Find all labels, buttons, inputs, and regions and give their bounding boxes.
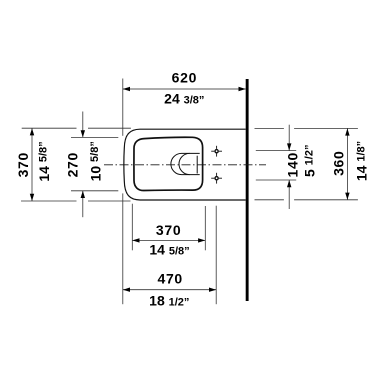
dim 370 bottom: extensions <box>132 204 205 251</box>
bottom ext line right <box>255 199 284 201</box>
dim 360 line <box>346 128 348 199</box>
dim 360 arrow bottom <box>345 193 349 200</box>
dim 470: extensions <box>123 193 216 304</box>
dim 270 arrow bottom <box>81 191 85 198</box>
dim 360 arrow top <box>345 128 349 135</box>
dim 140 arrow top <box>287 143 291 150</box>
dim 370 bottom line <box>132 239 205 241</box>
toilet outer outline <box>124 129 246 200</box>
svg-text:370: 370 <box>156 222 181 238</box>
svg-text:470: 470 <box>157 270 182 286</box>
drain inner arc <box>179 153 190 174</box>
fixing cross lower <box>211 173 222 184</box>
toilet inner bowl outline <box>134 137 203 190</box>
drain top line <box>182 152 200 154</box>
drain bottom line <box>182 174 200 176</box>
dim 370 left arrow bottom <box>30 194 34 201</box>
svg-text:370: 370 <box>15 152 31 177</box>
right side extension lines <box>255 125 358 209</box>
svg-text:14 5/8”: 14 5/8” <box>36 141 52 181</box>
dim 370 bottom arrow left <box>132 238 139 242</box>
svg-text:360: 360 <box>330 150 346 175</box>
drain vertical line <box>196 156 198 174</box>
fixing cross upper <box>211 146 222 157</box>
dim 470 line <box>123 289 216 291</box>
svg-text:10 5/8”: 10 5/8” <box>87 141 103 181</box>
dim 370 left: extension top <box>21 128 131 201</box>
svg-text:14 1/8”: 14 1/8” <box>354 141 370 181</box>
wall line <box>246 79 249 301</box>
svg-text:620: 620 <box>172 70 197 86</box>
fixing hole ext top <box>256 150 296 152</box>
dim 270 shafts <box>82 112 84 138</box>
dim 620 arrow left <box>123 87 130 91</box>
svg-text:140: 140 <box>285 152 301 177</box>
dim 270 arrow top <box>81 130 85 137</box>
drain outer arc <box>171 153 182 174</box>
dim 270: extension bottom <box>71 190 118 192</box>
dim 470 arrow left <box>123 288 130 292</box>
svg-text:270: 270 <box>65 152 81 177</box>
top ext line right <box>255 127 284 129</box>
dim 140 arrow bottom <box>287 180 291 187</box>
dim 620 line <box>123 88 246 90</box>
dim 370 left arrow top <box>30 128 34 135</box>
centerline <box>104 164 266 166</box>
dim 370 left: extension bottom <box>21 200 77 202</box>
dim 620 extension line left <box>122 79 124 136</box>
fixing hole ext bottom <box>256 179 296 181</box>
dim 370 bottom arrow right <box>198 238 205 242</box>
dim 270: extension top <box>71 112 118 218</box>
svg-text:5 1/2”: 5 1/2” <box>302 145 318 177</box>
dim 620 arrow right <box>239 87 246 91</box>
dim 140 shafts <box>288 125 290 151</box>
dim 370 left line <box>31 128 33 201</box>
dim 470 arrow right <box>209 288 216 292</box>
